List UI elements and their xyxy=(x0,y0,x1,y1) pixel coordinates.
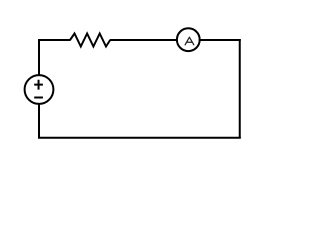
wire: resistor to ammeter xyxy=(110,39,178,41)
voltage source + symbol xyxy=(34,80,43,90)
voltage source - symbol xyxy=(34,97,43,99)
wire: bottom, bottom-right corner to bottom-left corner xyxy=(38,137,241,139)
wire: right side, top-right corner to bottom-right corner xyxy=(239,39,241,139)
voltage source V1 xyxy=(25,75,54,104)
wire: left side, top-left corner down to source + terminal xyxy=(38,39,40,76)
ammeter label A xyxy=(185,37,194,45)
wire: top-left corner to resistor xyxy=(38,39,71,41)
wire: ammeter to top-right corner xyxy=(199,39,241,41)
resistor R1 xyxy=(70,34,110,47)
ammeter M1 xyxy=(177,28,200,51)
wire: source - terminal down to bottom-left corner xyxy=(38,103,40,138)
